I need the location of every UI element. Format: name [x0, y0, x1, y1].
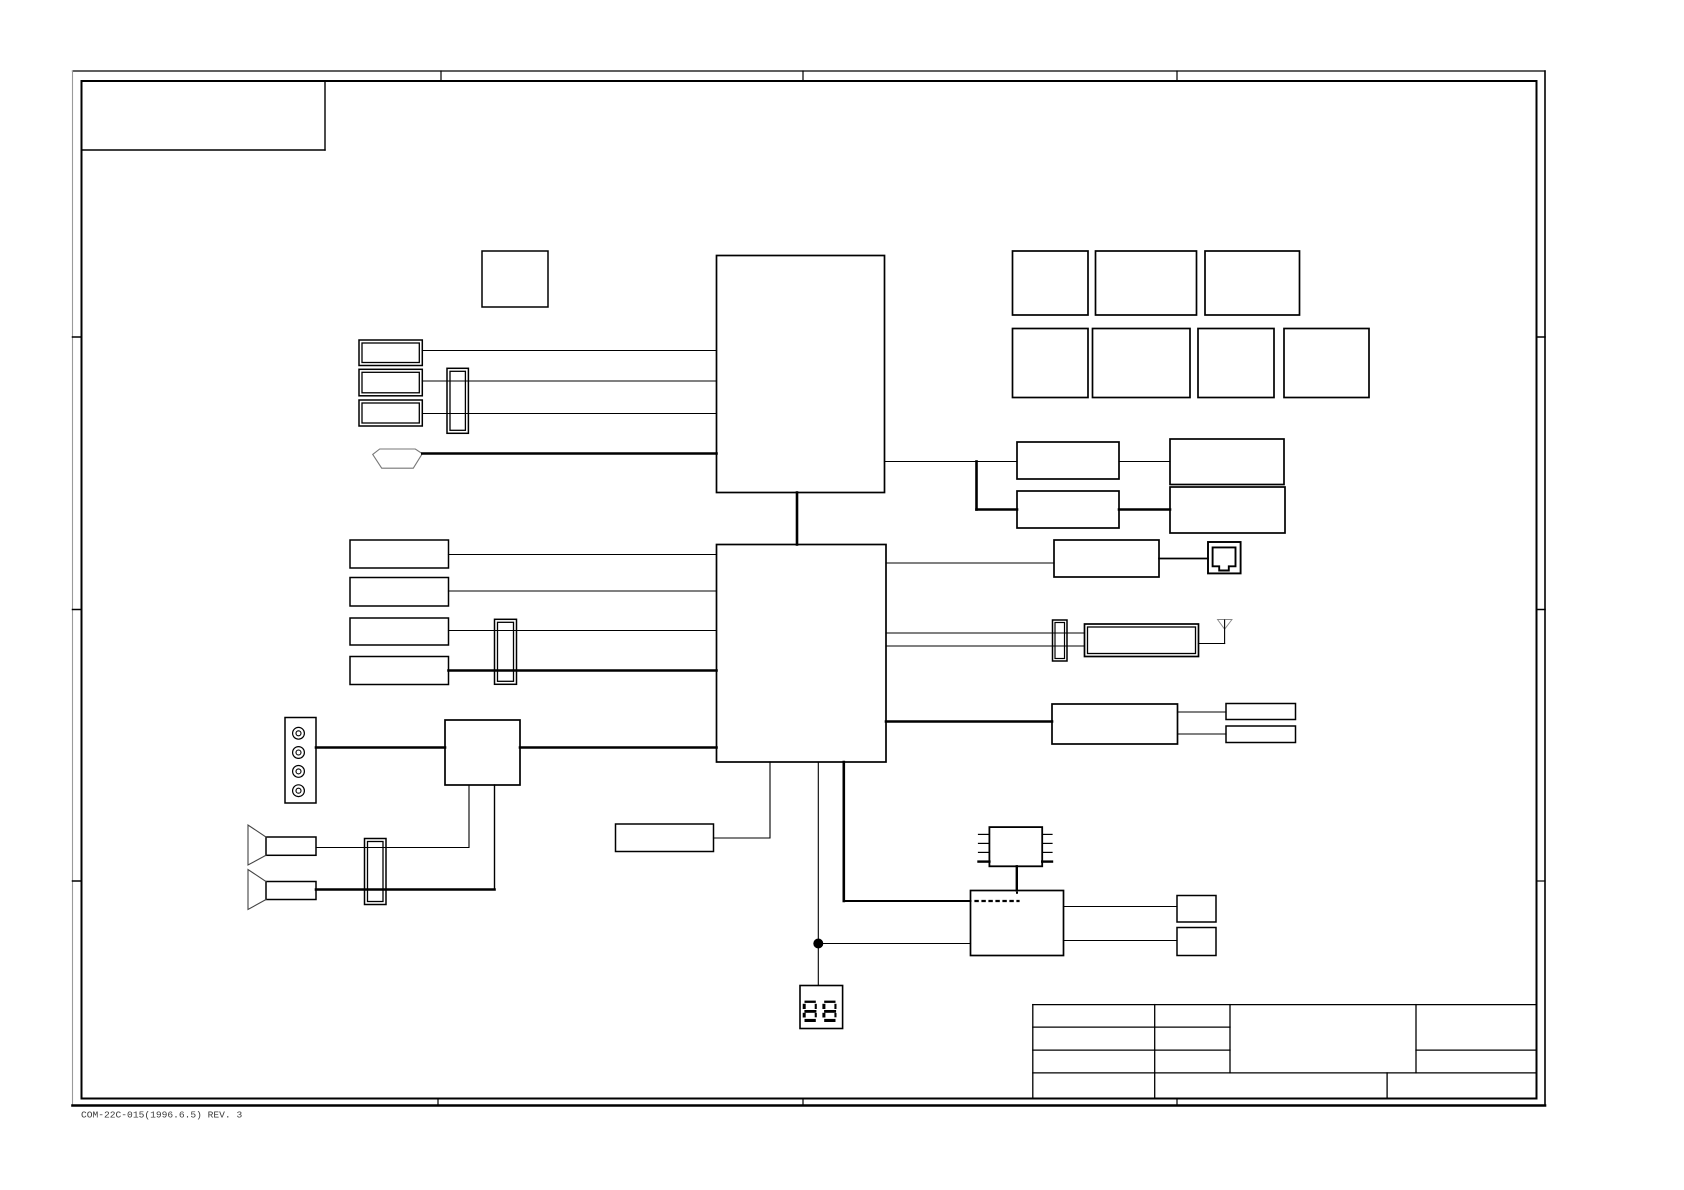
frame tick left 3 — [73, 880, 82, 882]
wire IC to sub board (thick) — [1016, 866, 1018, 890]
frame tick bottom 1 — [437, 1099, 439, 1106]
block: left box L4 — [350, 657, 449, 685]
block: AV switch — [445, 720, 520, 785]
wire L1 to main micom — [449, 554, 717, 556]
wire power box to R2 — [1178, 733, 1227, 735]
block: small box T1 — [1177, 896, 1216, 923]
outer border frame — [73, 71, 1546, 1106]
block: left box L3 — [350, 618, 449, 645]
net flag (pentagon label) — [373, 449, 423, 468]
block: small box R2 — [1226, 726, 1296, 743]
wire main micom to sub board (thick L) — [844, 762, 971, 901]
block: option row2 box4 — [1284, 329, 1369, 398]
block: tuner (double border) — [1085, 624, 1199, 657]
title box top-left — [82, 81, 326, 150]
frame tick right 2 — [1537, 609, 1546, 611]
block: small box R1 — [1226, 704, 1296, 720]
wire video processor to CRT boxes — [885, 462, 1018, 510]
block: option row2 box3 — [1198, 329, 1274, 398]
wire L2 to main micom — [449, 590, 717, 592]
block: small option box — [482, 251, 548, 307]
connector CN3 (double border vertical) — [1053, 620, 1068, 661]
connector CN4 (double border vertical) — [365, 839, 387, 905]
wire remote sensor to main micom — [714, 762, 771, 838]
wire L3 to main micom — [449, 630, 717, 632]
wire video processor to main micom (thick vertical) — [796, 493, 799, 545]
7-segment digits — [803, 1001, 837, 1022]
wire jack1 to video processor — [422, 350, 716, 352]
title block table — [1033, 1005, 1537, 1099]
block: input jack 2 (double border) — [359, 369, 422, 396]
antenna — [1199, 620, 1233, 644]
block: right box P2 — [1170, 487, 1285, 533]
inner border frame — [82, 81, 1537, 1099]
connector CN2 (double border vertical) — [495, 619, 517, 684]
block: option row1 box3 — [1205, 251, 1300, 315]
IC U1 (chip with pins) — [979, 827, 1053, 866]
block: option row1 box2 — [1096, 251, 1197, 315]
block: input jack 1 (double border) — [359, 340, 422, 366]
wire SP1 to AV switch — [316, 785, 469, 848]
frame tick bottom 2 — [802, 1099, 804, 1106]
frame tick top 2 — [802, 71, 804, 81]
wire power box to R1 — [1178, 711, 1227, 713]
wire sub board to T1 — [1064, 906, 1178, 908]
block: option row1 box1 — [1013, 251, 1089, 315]
connector CN1 (double border vertical) — [447, 368, 468, 433]
block: CRT drive upper — [1017, 442, 1119, 479]
frame tick top 1 — [440, 71, 442, 81]
speaker SP1 — [248, 825, 316, 865]
wire main micom to tuner (upper) — [886, 632, 1085, 634]
block: left box L2 — [350, 578, 449, 607]
wire junction to sub board — [818, 943, 970, 945]
dashed pin row inside sub board — [976, 892, 1019, 901]
wire main micom down to display (with junction) — [817, 762, 819, 986]
wire jack3 to video processor — [422, 413, 716, 415]
frame tick top 3 — [1176, 71, 1178, 81]
7-segment display — [800, 986, 843, 1029]
block: power box — [1052, 704, 1178, 744]
wire flag to video processor (thick) — [422, 452, 716, 455]
wire L4 to main micom (thick) — [449, 669, 717, 672]
wire main micom to tuner (lower) — [886, 645, 1085, 647]
modular phone jack icon — [1208, 542, 1241, 573]
frame tick left 2 — [73, 609, 82, 611]
block: input jack 3 (double border) — [359, 400, 422, 426]
wire CRT lower to right box (thick) — [1119, 508, 1170, 511]
wire main micom to IF box — [886, 562, 1054, 564]
block: video processor (upper big box) — [717, 256, 885, 493]
block: right box P1 — [1170, 439, 1284, 485]
block: small box T2 — [1177, 928, 1216, 956]
block: main micom (center big box) — [717, 545, 887, 763]
block: IF box — [1054, 540, 1159, 577]
block: CRT drive lower — [1017, 491, 1119, 528]
block: option row2 box2 — [1093, 329, 1191, 398]
speaker SP2 — [248, 870, 316, 910]
junction node — [813, 939, 823, 949]
RCA jack panel with four jacks — [285, 718, 316, 804]
wire RCA panel to AV switch (thick) — [316, 746, 445, 749]
svg-text:COM-22C-015(1996.6.5) REV. 3: COM-22C-015(1996.6.5) REV. 3 — [81, 1110, 242, 1121]
wire CRT upper to right box — [1119, 461, 1170, 463]
block: sub board — [971, 891, 1064, 956]
block: remote sensor box — [616, 824, 714, 852]
wire main micom to power box (thick) — [886, 720, 1052, 723]
wire jack2 to video processor — [422, 380, 716, 382]
block: left box L1 — [350, 540, 449, 568]
wire SP2 to AV switch (thick) — [316, 785, 495, 890]
wire IF box to modular jack — [1159, 558, 1208, 560]
frame tick right 1 — [1537, 336, 1546, 338]
wire sub board to T2 — [1064, 940, 1178, 942]
block: option row2 box1 — [1013, 329, 1089, 398]
frame tick bottom 3 — [1176, 1099, 1178, 1106]
frame tick left 1 — [73, 336, 82, 338]
wire AV switch to main micom (thick) — [520, 746, 717, 749]
frame tick right 3 — [1537, 880, 1546, 882]
